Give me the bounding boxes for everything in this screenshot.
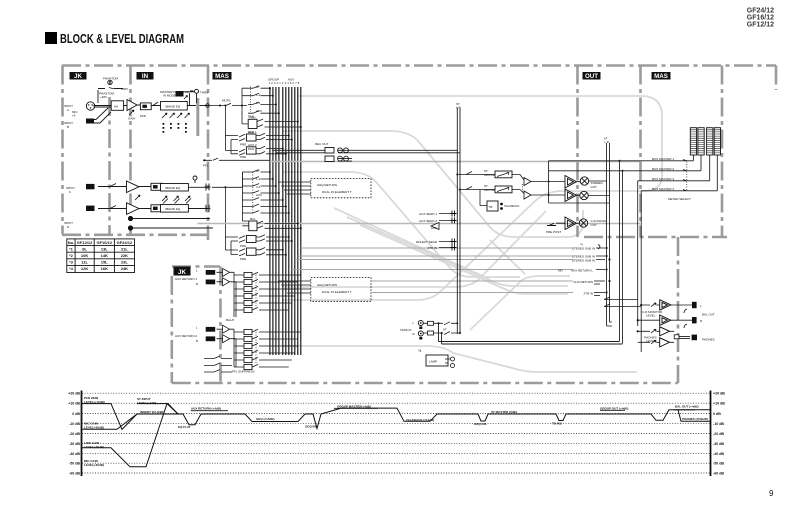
svg-text:PAN: PAN: [248, 131, 254, 135]
svg-text:REC OUT: REC OUT: [315, 142, 329, 146]
svg-text:3BAND EQ: 3BAND EQ: [165, 186, 181, 190]
svg-text:8L: 8L: [82, 246, 87, 251]
svg-text:OUT: OUT: [591, 223, 598, 227]
svg-text:AUX RETURN 1: AUX RETURN 1: [175, 277, 197, 281]
svg-text:PRE POST: PRE POST: [546, 230, 561, 234]
svg-text:0 dB: 0 dB: [713, 412, 721, 416]
svg-text:MN: MN: [558, 269, 563, 273]
svg-text:THRU: THRU: [200, 91, 208, 95]
svg-text:-30 dB: -30 dB: [69, 442, 80, 446]
svg-text:LEVEL(-60dB): LEVEL(-60dB): [84, 463, 104, 467]
svg-text:22K: 22K: [121, 253, 128, 258]
svg-text:13L: 13L: [101, 246, 108, 251]
svg-text:GEQ INS: GEQ INS: [305, 425, 318, 429]
svg-text:GF12/12: GF12/12: [747, 22, 774, 29]
svg-text:A: A: [67, 108, 69, 112]
svg-text:GEQ INS: GEQ INS: [474, 422, 487, 426]
svg-text:GEQ (±15dB): GEQ (±15dB): [256, 417, 274, 421]
svg-text:BUS MASTER 4: BUS MASTER 4: [652, 187, 674, 191]
svg-text:15L: 15L: [101, 260, 108, 265]
svg-text:STEREO SUB IN: STEREO SUB IN: [572, 259, 595, 263]
svg-text:+20 dB: +20 dB: [68, 392, 80, 396]
svg-text:3-4: 3-4: [256, 185, 261, 189]
svg-text:GROUP MASTER(+4dB): GROUP MASTER(+4dB): [337, 404, 371, 408]
svg-text:GF24/12: GF24/12: [117, 240, 133, 245]
svg-text:+10 dB: +10 dB: [713, 402, 725, 406]
svg-text:PFL SUPPRESS: PFL SUPPRESS: [232, 370, 255, 374]
svg-text:3BAND EQ: 3BAND EQ: [165, 105, 181, 109]
svg-text:-20 dB: -20 dB: [69, 432, 80, 436]
svg-text:ST: ST: [256, 85, 260, 89]
svg-text:1-2: 1-2: [256, 93, 261, 97]
svg-text:LEVEL(+10dB): LEVEL(+10dB): [84, 400, 105, 404]
svg-text:LEVEL: LEVEL: [646, 339, 656, 343]
svg-text:AUX SEND 1: AUX SEND 1: [419, 212, 437, 216]
svg-text:OUT: OUT: [591, 185, 598, 189]
svg-text:BLOCK & LEVEL DIAGRAM: BLOCK & LEVEL DIAGRAM: [60, 32, 184, 46]
svg-text:GF16/12: GF16/12: [747, 15, 774, 22]
svg-text:14K: 14K: [101, 253, 108, 258]
svg-text:PHANTOM: PHANTOM: [103, 77, 118, 81]
svg-text:MAS: MAS: [215, 73, 229, 80]
svg-text:3BAND EQ: 3BAND EQ: [165, 207, 181, 211]
svg-text:AUX: AUX: [256, 193, 262, 197]
svg-text:BUS MASTER 3: BUS MASTER 3: [652, 177, 674, 181]
svg-text:OUT: OUT: [585, 73, 598, 80]
svg-text:+48V: +48V: [121, 87, 128, 91]
svg-text:L R: L R: [605, 140, 609, 144]
svg-text:IN: IN: [142, 73, 149, 80]
svg-text:AUX: AUX: [431, 226, 437, 230]
svg-text:11L: 11L: [81, 260, 88, 265]
svg-text:TAPE IN: TAPE IN: [400, 328, 411, 332]
svg-text:PRE: PRE: [240, 155, 246, 159]
svg-text:-10 dB: -10 dB: [713, 422, 724, 426]
svg-text:-50 dB: -50 dB: [69, 462, 80, 466]
svg-text:+4: +4: [72, 114, 76, 118]
svg-text:INSERT I/O (0dB): INSERT I/O (0dB): [140, 410, 164, 414]
svg-text:PAD: PAD: [140, 114, 147, 118]
svg-text:0 dB: 0 dB: [72, 412, 80, 416]
svg-text:PAN: PAN: [248, 147, 254, 151]
svg-text:12K: 12K: [81, 266, 88, 271]
svg-text:PFL: PFL: [203, 164, 209, 168]
svg-text:GF16/12: GF16/12: [97, 240, 113, 245]
svg-text:TALKBACK (±10dB): TALKBACK (±10dB): [406, 418, 434, 422]
svg-text:16K: 16K: [101, 266, 108, 271]
svg-text:BAL/F: BAL/F: [226, 318, 235, 322]
svg-text:*4: *4: [580, 243, 583, 247]
svg-text:JK: JK: [74, 73, 82, 80]
svg-text:2TR IN: 2TR IN: [427, 246, 437, 250]
svg-text:AUX RETURN L: AUX RETURN L: [571, 269, 593, 273]
svg-text:LEVEL(-60dB): LEVEL(-60dB): [84, 426, 104, 430]
svg-text:2TR IN: 2TR IN: [583, 292, 593, 296]
svg-text:TB: TB: [489, 205, 493, 209]
svg-text:ST MASTER (0dB): ST MASTER (0dB): [491, 410, 517, 414]
svg-text:IN MODE: IN MODE: [163, 94, 176, 98]
svg-text:EQ FLAT: EQ FLAT: [178, 425, 191, 429]
svg-text:PHONES: PHONES: [702, 338, 715, 342]
svg-text:BAL OUT (+4dB): BAL OUT (+4dB): [675, 405, 699, 409]
svg-text:TALKBACK: TALKBACK: [504, 204, 519, 208]
svg-text:*4: *4: [418, 349, 421, 353]
svg-text:-60 dB: -60 dB: [69, 472, 80, 476]
svg-text:MAS: MAS: [654, 73, 668, 80]
svg-text:23L: 23L: [121, 260, 128, 265]
svg-text:LAMP: LAMP: [429, 360, 437, 364]
svg-text:GF12/12: GF12/12: [77, 240, 93, 245]
svg-text:BUS MASTER 2: BUS MASTER 2: [652, 167, 674, 171]
svg-text:-40 dB: -40 dB: [713, 452, 724, 456]
svg-text:AUX: AUX: [256, 109, 262, 113]
svg-text:B: B: [67, 125, 69, 129]
svg-text:-40 dB: -40 dB: [69, 452, 80, 456]
svg-text:TB INS: TB INS: [552, 422, 562, 426]
svg-text:-10 dB: -10 dB: [69, 422, 80, 426]
svg-text:+20 dB: +20 dB: [713, 392, 725, 396]
svg-text:+48V: +48V: [100, 95, 107, 99]
svg-text:METER SELECT: METER SELECT: [668, 197, 691, 201]
svg-text:PRE: PRE: [240, 142, 246, 146]
svg-text:PHONES (150mW): PHONES (150mW): [682, 417, 708, 421]
svg-text:JK: JK: [178, 269, 186, 276]
svg-text:AUX: AUX: [288, 78, 294, 82]
svg-text:ST: ST: [443, 328, 447, 332]
svg-text:-20 dB: -20 dB: [713, 432, 724, 436]
svg-text:10K: 10K: [81, 253, 88, 258]
svg-text:LEVEL(+4dB): LEVEL(+4dB): [137, 401, 156, 405]
svg-text:GEQ RETURN: GEQ RETURN: [317, 283, 337, 287]
svg-text:PAN: PAN: [248, 115, 254, 119]
svg-text:AUX RETURN (+4dB): AUX RETURN (+4dB): [191, 407, 221, 411]
svg-text:3-4: 3-4: [256, 101, 261, 105]
svg-text:AUX SEND 2: AUX SEND 2: [419, 219, 437, 223]
svg-text:BUS MASTER 1: BUS MASTER 1: [652, 157, 674, 161]
svg-text:9: 9: [769, 489, 774, 498]
svg-text:GF24/12: GF24/12: [747, 8, 774, 15]
svg-text:PRE: PRE: [240, 257, 246, 261]
svg-text:21L: 21L: [121, 246, 128, 251]
svg-text:GROUP: GROUP: [268, 78, 279, 82]
svg-text:MUTE: MUTE: [222, 99, 231, 103]
svg-text:HA: HA: [114, 105, 118, 109]
svg-text:DUAL 15 ELEMENT T: DUAL 15 ELEMENT T: [322, 290, 352, 294]
svg-text:EFFECT SEND: EFFECT SEND: [416, 240, 438, 244]
svg-text:-50 dB: -50 dB: [713, 462, 724, 466]
svg-text:AUX RETURN: AUX RETURN: [573, 280, 593, 284]
svg-text:GEQ RETURN: GEQ RETURN: [317, 183, 337, 187]
svg-text:BAL: BAL: [250, 217, 256, 221]
svg-text:GAIN: GAIN: [128, 117, 135, 121]
svg-text:No.: No.: [68, 240, 74, 245]
svg-text:+10 dB: +10 dB: [68, 402, 80, 406]
svg-text:STEREO SUB IN: STEREO SUB IN: [572, 247, 595, 251]
svg-text:BAL OUT: BAL OUT: [702, 313, 715, 317]
svg-text:24K: 24K: [121, 266, 128, 271]
svg-text:AUX RETURN 2: AUX RETURN 2: [175, 334, 197, 338]
svg-text:-60 dB: -60 dB: [713, 472, 724, 476]
svg-text:LEVEL(-30dB): LEVEL(-30dB): [84, 445, 104, 449]
svg-text:LEVEL: LEVEL: [646, 314, 656, 318]
svg-text:PRE: PRE: [240, 244, 246, 248]
svg-text:DUAL 15 ELEMENT T: DUAL 15 ELEMENT T: [322, 190, 352, 194]
svg-text:-30 dB: -30 dB: [713, 442, 724, 446]
